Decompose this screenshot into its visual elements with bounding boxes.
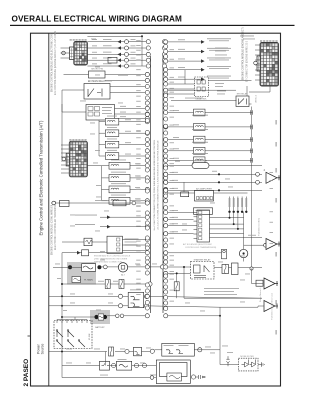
- chip pin cell 7: [199, 237, 202, 240]
- condenser drop 3: [237, 197, 239, 212]
- pin box text a: [102, 106, 112, 109]
- VSV coil row 4: [105, 153, 119, 160]
- misc code label: [96, 309, 101, 312]
- wire code arrow row 2: [178, 48, 185, 51]
- node VSV right 3: [164, 138, 168, 142]
- node E5 row 4 b: [146, 58, 150, 62]
- wire pinbox left h: [62, 111, 86, 113]
- stub into E5 tab: [61, 57, 70, 59]
- wire code tick left bus: [136, 68, 141, 71]
- wire coil row 1 in: [99, 121, 105, 123]
- dot chip row 2: [233, 223, 235, 225]
- AC amp pin 1: [197, 197, 199, 200]
- dot x184 top: [183, 266, 185, 268]
- dot battery bus: [61, 316, 63, 318]
- wire code tick right bus: [170, 243, 175, 246]
- J/C node right: [164, 54, 168, 58]
- heater relay box: [194, 208, 213, 215]
- svg-text:A/C AMPLIFIER: A/C AMPLIFIER: [196, 187, 212, 190]
- wire coil row 3 out: [119, 144, 148, 146]
- J/C node left: [145, 271, 149, 275]
- misc code label: [152, 263, 157, 266]
- grid pin numbers: [260, 40, 262, 41]
- condenser drop 5: [245, 197, 247, 212]
- extra label midright d: [217, 93, 225, 96]
- node F2 a: [112, 363, 116, 367]
- VSV component right row 1: [194, 109, 206, 116]
- heater relay label: [196, 209, 210, 212]
- extra label midright b: [215, 85, 223, 88]
- svg-text:ENGINE AND ECT CONTROL MODULE: ENGINE AND ECT CONTROL MODULE: [94, 255, 131, 258]
- node bottom wire: [150, 376, 154, 380]
- box F row2: [100, 361, 110, 370]
- wire chip right 3: [210, 228, 244, 230]
- AC amp pin 4: [207, 197, 209, 200]
- dot AM2 bus: [61, 295, 63, 297]
- arrow band D row 1: [107, 215, 111, 219]
- wire code tick right bus: [170, 162, 175, 165]
- J/C node right: [164, 285, 168, 289]
- drop to chip row 3: [237, 212, 239, 229]
- node E5 row 3 c: [162, 52, 166, 56]
- wire code VSV right 3: [173, 136, 179, 139]
- drop to chip row 2: [233, 212, 235, 224]
- wire ISC row 3 out: [130, 188, 147, 190]
- J/C node right: [164, 172, 168, 176]
- svg-text:EFI MAIN RELAY: EFI MAIN RELAY: [88, 80, 106, 83]
- grid pin numbers: [76, 39, 78, 40]
- wire to diode box: [220, 364, 239, 366]
- riser row1 to row2: [104, 352, 106, 366]
- misc code label 2: [90, 122, 95, 125]
- svg-text:A/T SOLENOID (ELECTRONIC: A/T SOLENOID (ELECTRONIC: [183, 243, 213, 246]
- chip pin left 4: [194, 224, 198, 226]
- small box row 203 left: [60, 201, 70, 207]
- wire short pin to J/C: [105, 74, 147, 76]
- wire code tick right bus: [170, 148, 175, 151]
- svg-text:Engine Control and Electronic: Engine Control and Electronic Controlled…: [39, 120, 44, 235]
- wire code ISC 3: [135, 186, 140, 189]
- node IG2 a: [118, 304, 122, 308]
- wire code tick left bus: [136, 83, 141, 86]
- chip pin cell 4: [199, 224, 202, 227]
- left bus bottom: [61, 299, 63, 378]
- DLC1 pin 4: [202, 87, 205, 91]
- wire code tick left bus: [136, 278, 141, 281]
- wire code tick right bus: [170, 237, 175, 240]
- svg-text:Power Source 1-2: Power Source 1-2: [260, 285, 262, 302]
- wire code tick left bus: [136, 157, 141, 160]
- misc code label 2: [212, 170, 217, 173]
- bottom wire label: [100, 374, 108, 377]
- misc code label: [66, 348, 72, 351]
- label line arrow row 5b: [209, 77, 229, 80]
- misc code label: [205, 346, 211, 349]
- J/C node left: [145, 306, 149, 310]
- stub into E6: [61, 160, 69, 162]
- misc code label 2: [182, 223, 187, 226]
- svg-text:22-1 22-2 J/C COWL WIRE CONNEC: 22-1 22-2 J/C COWL WIRE CONNECTOR No.2 J…: [158, 140, 160, 230]
- node VSV right 4: [164, 149, 168, 153]
- left strip divider: [48, 33, 50, 386]
- node E5 row 2 c: [162, 46, 166, 50]
- st relay note 2: [204, 290, 234, 293]
- VSV coil row 1: [105, 118, 119, 125]
- node EFI fuse: [164, 163, 168, 167]
- wire code E5 row 4r: [131, 57, 136, 60]
- stub into E7: [255, 69, 260, 71]
- wire VSV right row 1: [165, 112, 253, 114]
- wire code tick left bus: [136, 240, 141, 243]
- wire F row1 e: [155, 349, 162, 351]
- ISC coil row 2: [109, 175, 130, 182]
- J/C node right: [164, 232, 168, 236]
- noise filter label r1: [125, 238, 139, 241]
- svg-text:FL MAIN: FL MAIN: [84, 279, 93, 282]
- svg-text:NOISE FILTER: NOISE FILTER: [240, 356, 254, 358]
- misc code label 2: [200, 310, 205, 313]
- wire code tick right bus: [170, 116, 175, 119]
- check connector label: [118, 74, 128, 77]
- condenser rot label 3: [237, 198, 239, 207]
- wire resistor to filter: [92, 241, 107, 243]
- junction dot gnd row 1: [218, 173, 220, 175]
- noise filter label r3: [125, 244, 138, 247]
- node row 252: [164, 251, 168, 255]
- stub into E7: [255, 49, 260, 51]
- misc code label 2: [104, 210, 109, 213]
- wire code E5 row 2r: [131, 44, 136, 47]
- wire to DLC1 b: [168, 88, 195, 90]
- node FL b: [145, 265, 149, 269]
- wire grid E7 down b: [269, 86, 271, 92]
- VSV label under 3: [192, 141, 208, 144]
- wire code tick right bus: [170, 91, 175, 94]
- tick VSV right 4: [250, 149, 252, 154]
- tick VSV right 5: [250, 158, 252, 163]
- wire coil row 2 in: [99, 132, 105, 134]
- starter relay contacts: [194, 265, 210, 278]
- misc code label: [70, 293, 75, 296]
- right col code: [270, 171, 274, 174]
- J/C node left: [145, 246, 149, 250]
- right col code: [270, 231, 274, 234]
- svg-text:ALT: ALT: [121, 274, 125, 277]
- relay no2 contacts: [239, 99, 247, 105]
- node E5 row 4 c: [162, 58, 166, 62]
- misc code label 2: [240, 255, 245, 258]
- wire code pinbox 2: [120, 111, 126, 114]
- node E5 row 3 a: [125, 52, 129, 56]
- small box row 203 mid: [113, 200, 126, 206]
- wire ISC row 1 in: [102, 165, 110, 167]
- wire AM2 out right: [144, 296, 262, 298]
- chip pin left 2: [194, 216, 198, 218]
- node pinbox 1: [145, 106, 149, 110]
- wire code tick left bus: [136, 74, 141, 77]
- node row 284: [148, 282, 152, 286]
- right edge tick: [276, 198, 277, 203]
- wire coil row 1 out: [119, 121, 148, 123]
- wire IG2 out right: [144, 306, 220, 307]
- ignition pin: [66, 320, 68, 324]
- wire chip left 1: [165, 212, 194, 214]
- J/C node right: [164, 124, 168, 128]
- wire to short pin: [64, 74, 89, 76]
- J/C node right: [164, 94, 168, 98]
- tick VSV right 2: [250, 125, 252, 130]
- wire arrow row 5: [168, 78, 201, 80]
- wire code E5 row 1r: [131, 38, 136, 41]
- riser DLC left: [184, 70, 186, 84]
- ST fuse box: [222, 265, 229, 274]
- stub into E7: [255, 64, 260, 66]
- wire code E5 row 3r: [131, 51, 136, 54]
- node IG2 out: [144, 304, 148, 308]
- condenser rot label 4: [241, 198, 243, 207]
- wire chip right 2: [210, 223, 244, 225]
- wire code tick left bus: [136, 129, 141, 132]
- grommet circle near grid E5: [62, 51, 66, 55]
- fuse box F row1: [134, 347, 142, 356]
- ignition pin: [86, 320, 88, 324]
- arrow terminator E5 row 1: [117, 40, 121, 44]
- wire code tick left bus: [136, 162, 141, 165]
- wire code tick right bus: [170, 273, 175, 276]
- misc code label 2: [175, 160, 180, 163]
- ground triangle T2: [266, 239, 280, 250]
- wire to DLC1 a: [168, 83, 195, 85]
- wire code arrow row 5: [178, 76, 185, 79]
- wire band D arrow row 1: [100, 216, 147, 218]
- pin box cell 3: [88, 112, 93, 116]
- wire to EFI fuse: [165, 165, 192, 167]
- misc code label 2: [100, 250, 105, 253]
- node arrow row: [164, 40, 168, 44]
- bracket label row 2: [103, 44, 112, 47]
- junction connector bus right: [162, 56, 164, 313]
- AC small box left: [181, 192, 189, 197]
- node ST relay b: [164, 271, 168, 275]
- svg-text:Theft Deterrent ECU: Theft Deterrent ECU: [258, 217, 261, 236]
- stub into E6: [61, 144, 69, 146]
- wire code tick right bus: [170, 81, 175, 84]
- wire code tick right bus: [170, 109, 175, 112]
- battery out node b: [120, 314, 124, 318]
- grommet circle near grid E7: [254, 61, 258, 65]
- connector grid ECM E5: [70, 42, 88, 66]
- node row 203 b: [132, 201, 136, 205]
- gap label: [227, 351, 233, 354]
- stub into E7: [255, 54, 260, 56]
- wire check row: [105, 80, 147, 82]
- svg-text:ENGINE CONTROL MODULE (ENGINE: ENGINE CONTROL MODULE (ENGINE AND ECT): [242, 27, 245, 80]
- tick VSV right 5b: [252, 158, 254, 163]
- wire code tick right bus: [170, 48, 175, 51]
- svg-text:E/G CONTROL MODULE (ENGINE AND: E/G CONTROL MODULE (ENGINE AND ECT) 22-1…: [54, 31, 57, 95]
- wire ISC row 2 in: [102, 177, 110, 179]
- fusible link FL MAIN: [68, 264, 101, 272]
- wire row 252 left: [62, 252, 82, 254]
- wire code VSV right 1: [173, 109, 179, 112]
- misc code label 2: [185, 302, 190, 305]
- wire IG2 row: [49, 305, 128, 307]
- tick VSV right 3: [250, 137, 252, 142]
- node pinbox 2: [145, 112, 149, 116]
- connector grid ECM E6: [66, 141, 87, 177]
- ignition pin: [61, 320, 63, 324]
- wire code E5 row 4: [92, 57, 97, 60]
- tick VSV right 2b: [252, 125, 254, 130]
- svg-text:J/B No.2: J/B No.2: [256, 94, 258, 103]
- wire code coil 2: [125, 130, 131, 133]
- wire code tick left bus: [136, 95, 141, 98]
- J/C node right: [164, 117, 168, 121]
- right edge tick: [276, 168, 277, 173]
- wire code tick right bus: [170, 179, 175, 182]
- long shielded wire: [171, 100, 237, 102]
- J/C node right: [164, 244, 168, 248]
- J/C node left: [145, 300, 149, 304]
- grid pin numbers: [81, 139, 83, 140]
- wire relay no2 out: [249, 103, 252, 105]
- svg-text:Theft Deterrent and Door Lock: Theft Deterrent and Door Lock: [271, 293, 274, 320]
- grid pin numbers: [84, 139, 86, 140]
- wire code gnd 3: [172, 187, 178, 190]
- relay EFI contacts: [88, 89, 102, 98]
- misc code label 2: [106, 80, 112, 83]
- wire code E5 row 5r: [131, 62, 136, 65]
- ISC label 4: [111, 194, 126, 197]
- chip pin left 7: [194, 237, 198, 239]
- right col code: [270, 221, 274, 224]
- misc code label: [70, 302, 75, 305]
- wire E5 row 1: [87, 41, 148, 43]
- node gnd row 1: [164, 172, 168, 176]
- J/C node left: [145, 149, 149, 153]
- misc code label: [140, 362, 145, 365]
- junction dot gnd row 3: [218, 189, 220, 191]
- wire code tick right bus: [170, 124, 175, 127]
- wire code tick right bus: [170, 264, 175, 267]
- wire code E5 row 2: [92, 44, 97, 47]
- svg-text:HARNESS AND CONNECTOR: HARNESS AND CONNECTOR: [94, 261, 122, 264]
- wire arrow row 3: [168, 60, 201, 62]
- pin box text b: [102, 109, 111, 112]
- coil row label 2: [107, 126, 117, 129]
- wire code tick right bus: [170, 165, 175, 168]
- chip pin left 1: [194, 212, 198, 214]
- node row 252 left: [145, 251, 149, 255]
- bracket label row 5: [103, 62, 112, 65]
- stub into E7: [255, 74, 260, 76]
- arrow terminator E5 row 3: [117, 53, 121, 57]
- wire row 203: [51, 202, 147, 204]
- extra label midright c: [217, 90, 226, 93]
- starter relay box: [191, 262, 215, 280]
- VSV component right row 2: [194, 124, 206, 131]
- node ISC 4r: [164, 199, 168, 203]
- misc code label: [86, 362, 91, 365]
- J/C node right: [164, 290, 168, 294]
- chip pin left 5: [194, 229, 198, 231]
- wire filter out1: [122, 239, 147, 241]
- grid pin numbers: [263, 40, 265, 41]
- J/C node left: [145, 201, 149, 205]
- wire code gnd 1: [172, 171, 178, 174]
- node E5 row 5 c: [162, 64, 166, 68]
- wire F row2 a: [62, 365, 100, 367]
- diode 1: [242, 360, 249, 368]
- right edge tick: [276, 300, 277, 305]
- wire E5 top feed: [87, 35, 142, 37]
- J/C node left: [145, 211, 149, 215]
- wire filter out3: [122, 250, 147, 252]
- text above grid3 b: [243, 38, 255, 41]
- vertical feed x142: [141, 36, 143, 66]
- wire code tick left bus: [136, 270, 141, 273]
- chip pin left 3: [194, 220, 198, 222]
- wire pinbox left v: [61, 104, 63, 112]
- node FL c: [160, 265, 164, 269]
- node ISC 1r: [164, 164, 168, 168]
- node F1 b: [150, 349, 154, 353]
- wire F row2 b: [110, 365, 117, 367]
- grid pin numbers: [82, 39, 84, 40]
- stub into E6: [61, 148, 69, 150]
- wire code tick left bus: [136, 178, 141, 181]
- resistor box band D: [84, 238, 92, 246]
- noise filter ignition box: [239, 358, 259, 371]
- wire coil row 4 in: [99, 155, 105, 157]
- data link connector 1: [195, 77, 209, 97]
- wire F row1 a: [49, 351, 107, 353]
- node right col a: [256, 172, 260, 176]
- wire to ST relay b: [168, 272, 191, 274]
- wire code E5 row 1: [92, 38, 97, 41]
- J/C node right: [164, 102, 168, 106]
- wire code tick left bus: [136, 44, 141, 47]
- wire code ISC 1: [135, 162, 140, 165]
- condenser rot label 1: [229, 198, 231, 207]
- right col code: [270, 242, 274, 245]
- J/C node left: [145, 130, 149, 134]
- misc code label: [108, 302, 113, 305]
- wire motor down: [243, 258, 245, 262]
- riser pinbox to coils: [98, 120, 100, 156]
- arrow right row 3: [201, 59, 205, 63]
- wire grid E7 to relay no2: [246, 86, 248, 96]
- node bus end: [250, 267, 253, 270]
- J/C node right: [164, 72, 168, 76]
- gray patch battery: [90, 310, 110, 324]
- misc code label 2: [96, 196, 101, 199]
- node ISC 2: [145, 176, 149, 180]
- distributor fuse: [167, 373, 182, 381]
- spark gap glyph: [226, 356, 229, 366]
- right col code: [270, 187, 274, 190]
- wire relay out1: [110, 86, 147, 88]
- dot E5 top feed: [141, 35, 143, 37]
- chip pin cell 1: [199, 211, 202, 214]
- wire F row1 c: [129, 351, 134, 353]
- J/C node left: [145, 112, 149, 116]
- J/C node right: [164, 224, 168, 228]
- noise filter pins: [117, 238, 120, 251]
- wire code chip 3: [172, 222, 178, 225]
- ISC coil row 1: [109, 162, 130, 169]
- small box row 252: [82, 250, 89, 256]
